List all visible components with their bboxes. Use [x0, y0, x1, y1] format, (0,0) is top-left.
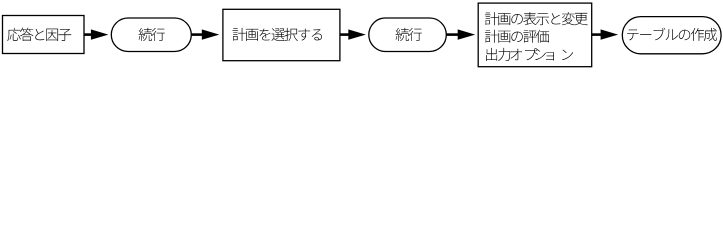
wire arrow A4 head: [458, 29, 476, 39]
process box B1 応答と因子: [3, 16, 85, 54]
wire arrow A5 line: [592, 33, 602, 36]
terminator S2 続行: [369, 18, 447, 52]
label text テーブルの作成: [627, 28, 717, 41]
label text 続行: [139, 28, 165, 41]
wire arrow A1 line: [84, 33, 92, 36]
wire arrow A3 line: [340, 33, 349, 36]
label text 計画の表示と変更: [485, 12, 588, 25]
wire arrow A2 line: [192, 33, 203, 36]
terminator S1 続行: [111, 18, 191, 52]
wire arrow A5 head: [601, 29, 619, 39]
wire arrow A1 head: [91, 29, 109, 39]
label text 計画を選択する: [233, 28, 323, 41]
process box B3 options list: [478, 3, 592, 67]
wire arrow A3 head: [348, 29, 366, 39]
label text 応答と因子: [7, 28, 71, 41]
terminator S3 テーブルの作成: [622, 17, 721, 54]
wire arrow A4 line: [447, 33, 461, 36]
process box B2 計画を選択する: [223, 9, 340, 60]
wire arrow A2 head: [202, 29, 220, 39]
label text 出力オプション: [486, 48, 573, 61]
label text 計画の評価: [485, 30, 549, 43]
label text 続行: [396, 28, 422, 41]
